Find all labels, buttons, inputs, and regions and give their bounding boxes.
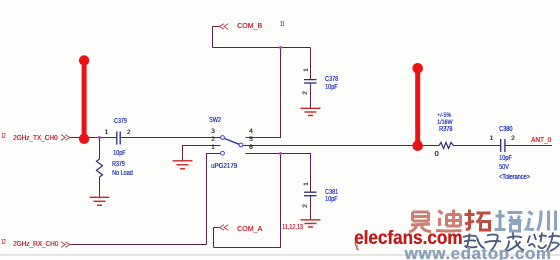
wire COM_B stub [213, 26, 220, 28]
off-page arrow COM_A << [220, 225, 229, 231]
pin 6 SW2 [249, 144, 253, 151]
watermark char yi (easy) [409, 212, 431, 232]
ref C379 [114, 118, 127, 125]
wire RX vertical [206, 154, 208, 245]
capacitor C381 plates [304, 192, 317, 196]
wire C378 top lead [310, 48, 312, 80]
ref R379 [112, 161, 125, 168]
ground for SW2 pin2 [173, 161, 193, 169]
watermark char shao (script) [528, 233, 547, 249]
wire RX horizontal [70, 244, 207, 246]
ground for C381 [301, 220, 321, 227]
watermark char di [436, 210, 462, 232]
wire SW2 pin6 row [246, 153, 312, 155]
pin 1 C379 [105, 129, 109, 136]
watermark char pei [495, 210, 523, 231]
wire R379 branch vertical [99, 138, 101, 160]
pin 1 C378 rotated [303, 68, 310, 72]
value 10pF (C378) [325, 84, 337, 91]
pin 1 C380 [490, 135, 494, 142]
bottom gray rule [0, 254, 560, 256]
switch SW2 pole circle pin3 [221, 136, 225, 140]
capacitor C378 plates [304, 80, 317, 83]
switch SW2 circle pin5 [239, 143, 243, 147]
watermark char zi (script) [485, 235, 502, 252]
ref C380 [499, 126, 512, 133]
value 10pF (C379) [113, 150, 125, 157]
wire C381 top lead [310, 154, 312, 193]
wire SW2 pin1 row [206, 153, 221, 155]
pin 1 C381 rotated [303, 182, 310, 186]
capacitor C380 plates [501, 139, 505, 152]
ref C378 [325, 76, 338, 83]
wire SW2 pin2 to ground [182, 145, 221, 147]
off-page arrow COM_B << [220, 24, 229, 30]
wire R379 to ground [99, 177, 101, 197]
port arrow RX >> [61, 242, 70, 248]
value Tolerance (C380) [499, 174, 530, 181]
pin 2 C380 [511, 135, 515, 142]
net label ANT_0 [531, 135, 551, 144]
pin 2 C379 [127, 129, 131, 136]
watermark char fa (script) [505, 233, 525, 252]
watermark www.edatop.com [405, 244, 552, 260]
net label COM_B [237, 21, 262, 30]
value 10pF (C380) [499, 155, 512, 162]
watermark char tuo [465, 210, 491, 231]
value No Load (R379) [112, 170, 133, 177]
pin 3 SW2 [211, 128, 215, 135]
pin 4 SW2 [249, 128, 253, 135]
highlight bar 2 [412, 63, 423, 151]
tolerance +/-5% (R378) [437, 112, 451, 119]
value 0 (R378) [435, 151, 439, 158]
wire C381 bottom lead [310, 196, 312, 220]
wire COM_A vertical from pin6 [280, 154, 282, 249]
ground for C378 [301, 108, 321, 115]
page ref 11 [280, 21, 285, 28]
resistor R378 zigzag [439, 142, 454, 148]
value 50V (C380) [499, 164, 509, 171]
highlight bar 1 [79, 55, 89, 144]
wire TX main [70, 27, 552, 249]
switch SW2 arm [225, 139, 239, 145]
pin 2 SW2 [211, 136, 215, 143]
ref C381 [325, 189, 338, 196]
watermark elecfans.com [354, 228, 462, 250]
pin 5 SW2 [249, 136, 253, 143]
junction node at R379 branch [98, 136, 101, 139]
wire SW2 pin4 row [246, 137, 282, 139]
wire C378 bottom lead [310, 83, 312, 108]
net label 12 (TX page) [1, 133, 6, 140]
net label COM_A [237, 224, 262, 233]
net label 2GHz_RX_CH0 [13, 239, 58, 248]
watermark squiggle before elecfans [355, 241, 358, 250]
capacitor C379 plates [117, 132, 120, 145]
junction node COM_B / pin4 [279, 46, 282, 49]
net label 2GHz_TX_CH0 [13, 133, 57, 142]
ground for R379 [90, 197, 110, 205]
ref SW2 [209, 117, 221, 124]
wire COM_A horizontal [214, 247, 281, 249]
wire after C380 to ANT_0 [506, 145, 553, 147]
watermark char you (script) [547, 233, 560, 252]
pin 1 SW2 [211, 144, 215, 151]
junction node COM_A / pin6 [279, 152, 282, 155]
pin 2 C378 rotated [302, 91, 309, 95]
watermark char dian (script) [463, 234, 485, 249]
wire COM_A stub [214, 227, 220, 229]
watermark char xun [527, 211, 556, 231]
ref R378 [439, 126, 452, 133]
wire COM_B vertical to pin4 [280, 48, 282, 138]
net label 12 (RX page) [1, 239, 6, 246]
pin 2 C381 rotated [302, 204, 309, 208]
value 10pF (C381) [325, 196, 337, 203]
power 1/16W (R378) [437, 119, 452, 126]
port arrow TX >> [61, 135, 70, 141]
page ref 11,12,13 [282, 224, 303, 231]
wire antenna row pin5 [243, 145, 439, 147]
resistor R379 zigzag [97, 159, 103, 177]
switch SW2 circle pin1 [221, 151, 225, 155]
value uPG2179 (SW2) [211, 163, 237, 170]
